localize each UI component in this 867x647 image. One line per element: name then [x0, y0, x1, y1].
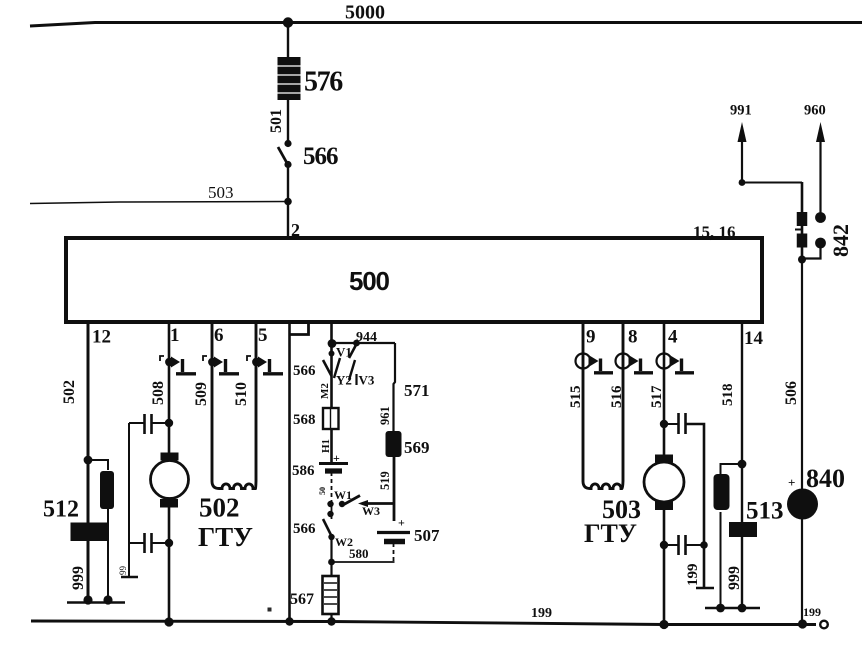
svg-text:508: 508 — [150, 381, 167, 405]
svg-text:M2: M2 — [319, 383, 331, 399]
svg-text:569: 569 — [404, 438, 430, 457]
svg-text:571: 571 — [404, 381, 430, 400]
svg-text:518: 518 — [720, 384, 736, 407]
svg-text:586: 586 — [292, 463, 315, 479]
svg-text:513: 513 — [746, 498, 784, 525]
svg-text:944: 944 — [356, 330, 377, 345]
svg-text:+: + — [398, 516, 405, 530]
svg-text:519: 519 — [378, 471, 392, 490]
svg-text:567: 567 — [290, 591, 314, 608]
svg-text:503: 503 — [208, 183, 234, 202]
svg-text:509: 509 — [193, 382, 210, 406]
svg-text:568: 568 — [293, 412, 316, 428]
svg-text:506: 506 — [783, 381, 800, 405]
svg-text:+: + — [333, 451, 340, 465]
svg-text:2: 2 — [291, 220, 300, 240]
svg-text:515: 515 — [568, 386, 584, 409]
svg-text:Y2: Y2 — [336, 373, 352, 388]
svg-text:V1: V1 — [336, 345, 352, 360]
svg-text:566: 566 — [293, 363, 316, 379]
svg-text:566: 566 — [293, 521, 316, 537]
svg-text:H1: H1 — [320, 439, 332, 453]
svg-text:999: 999 — [70, 566, 87, 590]
svg-text:15, 16: 15, 16 — [693, 223, 736, 242]
svg-text:W1: W1 — [334, 488, 352, 502]
svg-text:W3: W3 — [362, 504, 380, 518]
svg-text:9: 9 — [586, 327, 596, 348]
svg-text:576: 576 — [304, 67, 343, 98]
svg-text:502: 502 — [61, 380, 78, 404]
svg-text:99: 99 — [118, 566, 128, 576]
svg-text:517: 517 — [649, 385, 665, 408]
svg-text:ГТУ: ГТУ — [198, 522, 253, 552]
svg-text:960: 960 — [804, 103, 826, 119]
svg-text:5000: 5000 — [345, 2, 385, 24]
svg-text:502: 502 — [199, 493, 240, 523]
svg-text:512: 512 — [43, 497, 79, 523]
svg-text:842: 842 — [828, 224, 853, 257]
svg-text:566: 566 — [303, 143, 338, 170]
svg-text:199: 199 — [531, 606, 552, 621]
svg-text:ГТУ: ГТУ — [584, 519, 637, 548]
svg-text:4: 4 — [668, 327, 678, 348]
svg-text:6: 6 — [214, 325, 224, 346]
svg-text:1: 1 — [170, 325, 180, 346]
svg-text:501: 501 — [268, 109, 285, 133]
svg-text:991: 991 — [730, 103, 752, 119]
svg-text:+: + — [788, 475, 795, 490]
svg-text:14: 14 — [744, 328, 764, 349]
svg-text:580: 580 — [349, 546, 369, 561]
svg-text:999: 999 — [726, 566, 743, 590]
svg-text:961: 961 — [378, 406, 392, 425]
svg-text:199: 199 — [685, 564, 701, 587]
svg-text:199: 199 — [803, 605, 821, 619]
svg-text:510: 510 — [233, 382, 250, 406]
svg-text:8: 8 — [628, 327, 638, 348]
svg-text:840: 840 — [806, 464, 845, 493]
svg-text:V3: V3 — [359, 373, 375, 388]
svg-text:5: 5 — [258, 325, 268, 346]
svg-text:507: 507 — [414, 526, 440, 545]
svg-text:500: 500 — [349, 266, 390, 296]
svg-text:50: 50 — [318, 487, 327, 495]
svg-text:516: 516 — [609, 385, 625, 408]
svg-text:12: 12 — [92, 327, 111, 348]
